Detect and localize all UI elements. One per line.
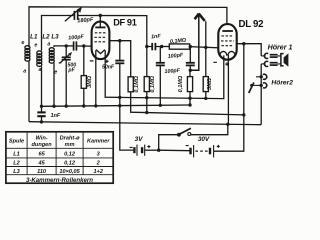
node antenna foot (189, 69, 192, 72)
node 3V junction (157, 149, 160, 152)
svg-text:3V: 3V (135, 136, 144, 143)
wire L3 bottom to bus A (53, 63, 55, 106)
headphone jack 1 lower socket and plug (264, 61, 268, 66)
headphone jack 1 upper socket and plug (264, 53, 268, 58)
node A 3V feed (118, 104, 121, 107)
wire to 30V battery (159, 149, 190, 152)
capacitor 100pF second (189, 47, 191, 63)
wire grid line to DL92 (190, 47, 219, 48)
svg-text:1+2: 1+2 (93, 169, 103, 175)
svg-text:0,1MΩ: 0,1MΩ (134, 75, 140, 92)
node A trimmer (65, 104, 68, 107)
svg-text:L3: L3 (13, 169, 20, 175)
svg-text:Win-: Win- (36, 136, 48, 142)
wire phones return down to bus B (260, 64, 262, 125)
svg-text:L2: L2 (13, 160, 20, 166)
minus plus marks DL92 (213, 62, 228, 66)
svg-text:e: e (21, 40, 24, 46)
antenna arrow (190, 15, 199, 70)
wire DL92 filament right leg to bus B (227, 55, 229, 124)
node A R3 end (188, 103, 191, 106)
coil L2 (37, 51, 42, 66)
svg-text:a: a (23, 68, 26, 74)
capacitor 100pF first (159, 47, 161, 63)
node B switch riser (226, 123, 229, 126)
svg-text:0,12: 0,12 (64, 160, 76, 166)
svg-text:DL 92: DL 92 (239, 19, 264, 30)
battery 3V (134, 147, 142, 153)
svg-text:DF 91: DF 91 (113, 17, 137, 27)
node 1nF left (145, 45, 148, 48)
tube DF91 anode (95, 26, 105, 28)
svg-text:L2 L3: L2 L3 (42, 33, 59, 40)
tube DF91 grids (94, 33, 106, 42)
wire DL92 filament left leg to fil bus riser (223, 55, 225, 57)
resistor R1 0.1Mohm screen (128, 77, 133, 92)
wire H2 right part to DF91 top and down to 1nF (78, 16, 146, 47)
svg-text:0,1MΩ: 0,1MΩ (150, 75, 156, 92)
minus plus marks 30V (186, 145, 220, 148)
resistor R4 3Mohm (205, 21, 207, 76)
tube DF91 envelope (92, 22, 110, 60)
bus filament line (120, 57, 224, 98)
tube DL92 envelope (218, 24, 236, 60)
svg-text:0,12: 0,12 (64, 152, 76, 158)
jack Hoerer2 lower socket (263, 83, 267, 88)
svg-text:e: e (34, 43, 37, 49)
wire L2 bottom to bus A (41, 66, 43, 106)
svg-text:Spule: Spule (9, 139, 24, 145)
svg-text:Hörer 1: Hörer 1 (268, 43, 293, 51)
battery 30V (191, 148, 211, 155)
svg-text:L1: L1 (30, 33, 38, 40)
trimmer capacitor 500pF (65, 46, 67, 57)
node 50nF top (118, 39, 121, 42)
tube DL92 anode (222, 30, 233, 32)
wire R1 bottom corner to mid bus (131, 92, 244, 115)
capacitor 50nF screen bypass (119, 41, 121, 61)
svg-text:1nF: 1nF (151, 34, 162, 41)
paper background (0, 0, 300, 197)
svg-text:110: 110 (37, 169, 47, 175)
wire grid node to 100pF (66, 45, 73, 47)
jack Hoerer2 upper socket (263, 74, 267, 79)
svg-text:dungen: dungen (31, 142, 52, 148)
svg-text:50nF: 50nF (102, 64, 115, 70)
svg-text:1nF: 1nF (51, 113, 61, 119)
node 1nF right (160, 45, 163, 48)
node Hoerer2 lower (260, 84, 263, 87)
node A 3Mohm (82, 104, 85, 107)
wire 100pF to DF91 grid (76, 45, 91, 47)
wire 50nF down to 3V battery minus (120, 64, 133, 150)
wire 3V plus to junction (145, 149, 159, 151)
minus plus marks DF91 (90, 60, 109, 63)
svg-text:10×0,05: 10×0,05 (59, 169, 80, 175)
minus plus marks 3V (130, 145, 151, 148)
resistor R3 0.1Mohm (189, 70, 191, 76)
node 100pF-2 top (189, 45, 192, 48)
svg-text:Kammer: Kammer (87, 139, 110, 145)
svg-text:Draht-ø: Draht-ø (60, 136, 80, 142)
node A filament (94, 104, 97, 107)
node DF91 top junction (99, 14, 102, 17)
node mid bus R2 (145, 111, 148, 114)
coil L3 (49, 48, 54, 64)
wire DL92 plate out to phones (237, 44, 262, 56)
node DL92 HT (242, 42, 245, 45)
svg-text:0,1MΩ: 0,1MΩ (178, 75, 184, 92)
tube DL92 filament arcs (220, 51, 235, 55)
wire top bus H1 from L1 top to DL92 top (29, 7, 227, 47)
node B 1nF (40, 120, 43, 123)
earpiece Hoerer 1 (281, 54, 284, 66)
wire DF91 filament plus to 3V feed (105, 50, 120, 97)
resistor 3Mohm grid leak (83, 46, 85, 76)
svg-text:3MΩ: 3MΩ (87, 75, 93, 88)
wire 30V plus up the HT rail (214, 44, 244, 152)
switch lever Hoerer2 (249, 83, 254, 94)
capacitor 100pF grid (74, 41, 77, 50)
node mid bus HT (242, 113, 245, 116)
svg-text:mm: mm (65, 142, 75, 148)
svg-text:Hörer2: Hörer2 (271, 80, 293, 87)
switch battery (159, 135, 179, 151)
resistor 0.1Mohm grid stopper horizontal (162, 46, 170, 48)
svg-text:e: e (54, 69, 57, 75)
wire trimmer bottom to bus A (65, 60, 67, 106)
svg-text:65: 65 (38, 152, 45, 158)
node fil bus R4 (204, 97, 207, 100)
capacitor 1nF coupling (152, 43, 155, 50)
svg-text:a: a (47, 42, 50, 48)
wire DF91 top pin (99, 16, 101, 28)
wire DF91 screen out to R1 (109, 41, 131, 77)
node 3Mohm top (82, 44, 85, 47)
svg-text:3-Kammern-Rollenkern: 3-Kammern-Rollenkern (26, 177, 93, 184)
node R4 stub (204, 46, 207, 49)
resistor R2 0.1Mohm anode load (146, 47, 148, 77)
svg-text:pF: pF (67, 68, 75, 74)
node A L2 (40, 105, 43, 108)
coil L1 (25, 46, 30, 62)
wire L1 bottom to bus B (28, 61, 30, 121)
tube DL92 grids (221, 36, 234, 46)
node fil bus R3 (188, 97, 191, 100)
wire H2 tuned-grid line with corners (42, 16, 74, 51)
bus B bottom line (29, 122, 261, 125)
node A L3 (52, 105, 55, 108)
wire L3 top bend to trimmer node (54, 46, 66, 47)
svg-text:a: a (39, 67, 42, 73)
svg-text:45: 45 (37, 160, 45, 166)
variable capacitor 180pF (74, 11, 77, 20)
svg-text:30V: 30V (198, 136, 210, 143)
bus A ground line (42, 105, 191, 106)
node Hoerer2 upper (260, 75, 263, 78)
table coil data (6, 132, 113, 183)
svg-text:3MΩ: 3MΩ (207, 77, 213, 90)
labels (9, 136, 110, 184)
svg-text:L1: L1 (13, 152, 20, 158)
wire DF91 filament minus to bus A (95, 50, 97, 106)
node trimmer top (65, 44, 68, 47)
node fil bus R2 (145, 96, 148, 99)
capacitor 1nF antenna series (37, 112, 45, 116)
tube DF91 filament (96, 50, 105, 54)
node A 100pF (159, 104, 162, 107)
node fil bus 50nF feed (118, 96, 121, 99)
